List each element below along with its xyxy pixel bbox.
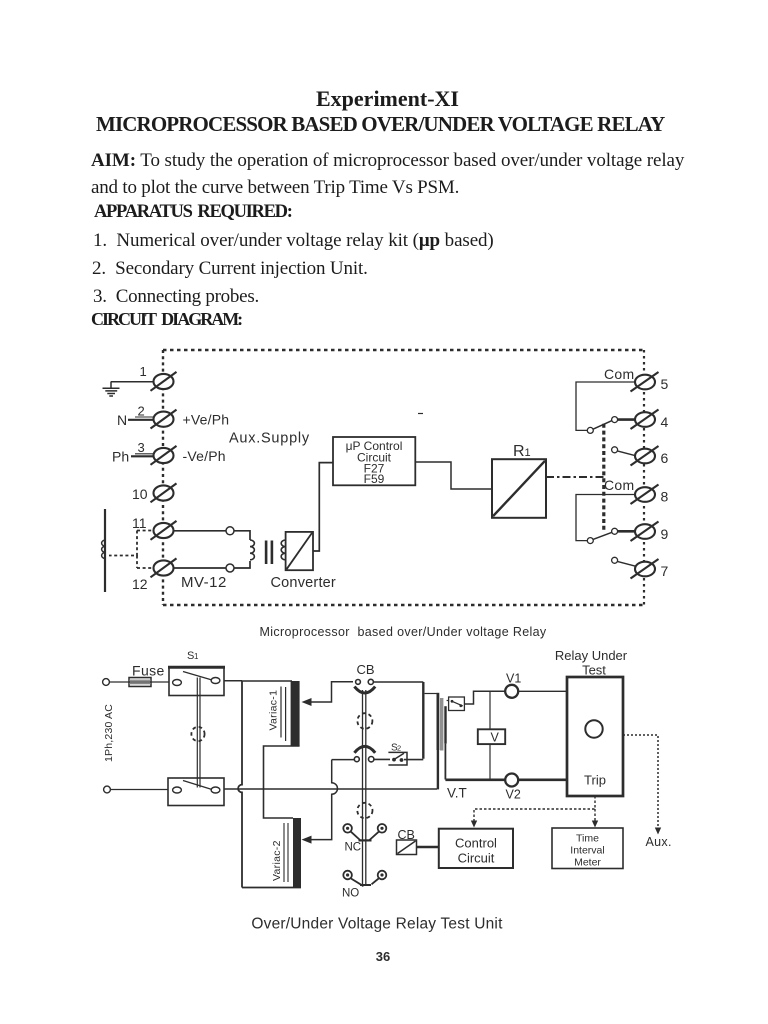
svg-text:V.T: V.T xyxy=(447,786,467,801)
svg-text:Circuit: Circuit xyxy=(458,851,495,866)
svg-text:Control: Control xyxy=(455,836,497,851)
svg-text:2: 2 xyxy=(397,744,401,753)
svg-text:9: 9 xyxy=(661,526,669,542)
svg-text:2: 2 xyxy=(138,404,145,419)
svg-text:12: 12 xyxy=(132,576,148,592)
svg-text:Microprocessor based over/Und: Microprocessor based over/Under voltage … xyxy=(259,625,546,639)
svg-text:Trip: Trip xyxy=(584,773,606,788)
svg-text:N: N xyxy=(117,412,127,428)
svg-text:Converter: Converter xyxy=(271,575,336,591)
svg-text:5: 5 xyxy=(661,376,669,392)
svg-text:R: R xyxy=(513,443,525,460)
svg-text:36: 36 xyxy=(376,949,390,964)
svg-text:Test: Test xyxy=(582,663,606,678)
svg-text:Fuse: Fuse xyxy=(132,663,165,679)
svg-text:4: 4 xyxy=(661,414,669,430)
svg-text:NC: NC xyxy=(345,842,362,854)
svg-text:Variac-2: Variac-2 xyxy=(271,840,283,881)
svg-text:Ph: Ph xyxy=(112,449,129,465)
svg-text:F59: F59 xyxy=(364,472,385,486)
svg-text:V1: V1 xyxy=(506,672,521,686)
svg-text:CB: CB xyxy=(357,662,375,677)
svg-text:3: 3 xyxy=(138,440,145,455)
svg-text:1: 1 xyxy=(194,652,199,661)
svg-text:8: 8 xyxy=(661,489,669,505)
svg-text:Meter: Meter xyxy=(574,857,601,869)
svg-text:CB: CB xyxy=(398,828,415,842)
svg-text:Interval: Interval xyxy=(570,845,604,857)
svg-text:10: 10 xyxy=(132,486,148,502)
svg-text:11: 11 xyxy=(132,515,147,531)
svg-text:Aux.Supply: Aux.Supply xyxy=(229,431,310,447)
svg-text:Time: Time xyxy=(576,833,599,845)
svg-text:+Ve/Ph: +Ve/Ph xyxy=(183,412,230,428)
svg-text:1Ph,230 AC: 1Ph,230 AC xyxy=(103,704,115,762)
svg-text:V: V xyxy=(491,731,500,745)
svg-text:Com: Com xyxy=(604,477,634,493)
svg-text:Aux.: Aux. xyxy=(646,835,672,849)
svg-text:1: 1 xyxy=(140,364,147,379)
svg-text:NO: NO xyxy=(342,888,359,900)
svg-text:V2: V2 xyxy=(506,788,521,802)
svg-text:7: 7 xyxy=(661,563,669,579)
svg-text:-Ve/Ph: -Ve/Ph xyxy=(183,448,226,464)
svg-text:Over/Under Voltage Relay Test: Over/Under Voltage Relay Test Unit xyxy=(251,916,503,933)
svg-text:1: 1 xyxy=(525,447,531,459)
svg-text:MV-12: MV-12 xyxy=(181,574,227,591)
svg-text:6: 6 xyxy=(661,450,669,466)
svg-text:Variac-1: Variac-1 xyxy=(268,690,280,731)
svg-text:Relay Under: Relay Under xyxy=(555,648,628,663)
svg-text:Com: Com xyxy=(604,366,634,382)
